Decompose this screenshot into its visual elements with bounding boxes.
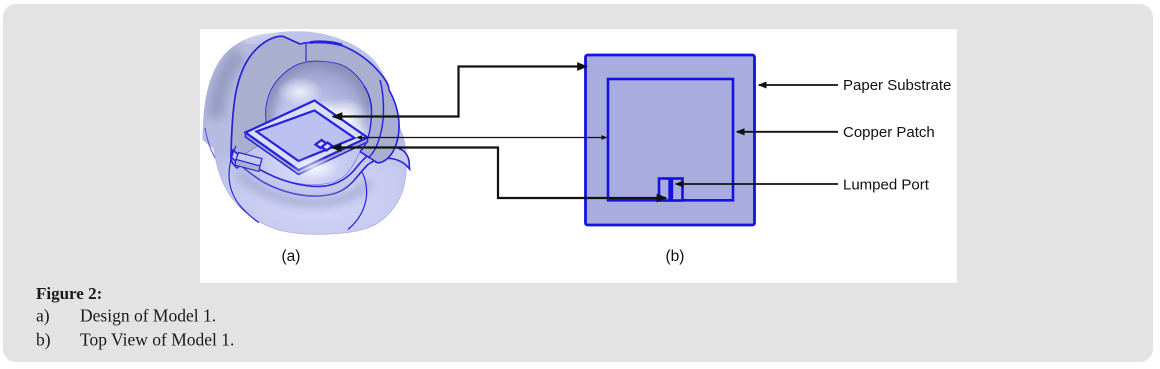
- dome upper silhouette: [203, 31, 400, 136]
- svg-text:b): b): [36, 330, 51, 350]
- band flare overlay: [360, 85, 399, 163]
- svg-text:Figure 2:: Figure 2:: [36, 284, 102, 303]
- svg-text:Paper Substrate: Paper Substrate: [843, 77, 951, 94]
- lumped port tab 2: [672, 179, 683, 201]
- flare inner edge (arc C right): [360, 86, 372, 152]
- lumped port tab 1: [659, 179, 670, 201]
- rim step notch: [236, 153, 262, 167]
- lumped port tabs (3d): [316, 140, 327, 148]
- dome top seam: [305, 44, 307, 62]
- inner cavity: [244, 61, 372, 185]
- highlight right of patch: [291, 156, 339, 180]
- dome outer crescent: [203, 32, 286, 158]
- svg-text:Copper Patch: Copper Patch: [843, 124, 935, 141]
- copper patch square: [608, 79, 733, 200]
- callout lumped port: [676, 183, 838, 185]
- ledge edge segment: [205, 128, 215, 158]
- rim band (lower cut face, sweeping up at right): [231, 147, 410, 197]
- connector L1 substrate: [333, 67, 587, 117]
- flare outer edge: [360, 90, 399, 163]
- dome cut band with flared right end: [231, 36, 399, 168]
- right bowl seam: [348, 172, 367, 230]
- svg-text:a): a): [36, 306, 50, 326]
- substrate board top face: [246, 101, 368, 171]
- callout copper patch: [737, 131, 838, 133]
- flare seam: [368, 80, 384, 158]
- dome notch: [284, 37, 301, 45]
- paper substrate square: [586, 55, 755, 225]
- connector L2 copper patch: [357, 137, 607, 139]
- band outer thick top segment: [310, 42, 342, 45]
- band outer arc (left): [231, 36, 284, 158]
- svg-text:Lumped Port: Lumped Port: [843, 177, 930, 194]
- under-rim shadow on bowl: [238, 172, 370, 202]
- left bowl seam: [229, 146, 259, 223]
- svg-text:(b): (b): [666, 248, 685, 265]
- substrate board side faces: [246, 133, 368, 175]
- sphere bowl body: [213, 127, 407, 234]
- svg-text:Top View of Model 1.: Top View of Model 1.: [80, 330, 234, 350]
- white figure panel: [200, 29, 957, 283]
- connector L3 lumped port: [332, 148, 666, 199]
- svg-text:(a): (a): [282, 248, 301, 265]
- copper patch (3d): [257, 111, 355, 162]
- callout paper substrate: [759, 84, 838, 86]
- highlight above patch: [276, 77, 324, 107]
- svg-text:Design of Model 1.: Design of Model 1.: [80, 306, 216, 326]
